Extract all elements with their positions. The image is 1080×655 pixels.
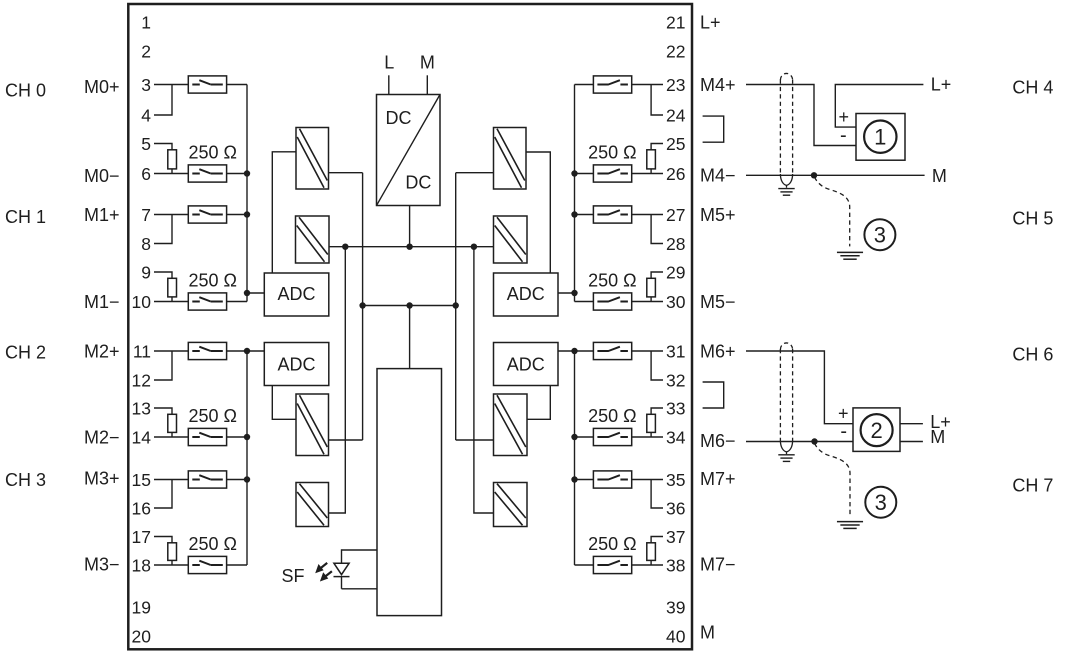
wire M output transducer 2 [900,441,923,443]
junction left upper ADC1 [244,290,250,296]
svg-text:250 Ω: 250 Ω [588,406,637,426]
resistor 250 ohm CH5 [647,278,656,297]
wire resistor CH2 bottom [171,432,173,437]
svg-text:30: 30 [666,292,686,312]
svg-text:3: 3 [141,75,151,95]
svg-text:250 Ω: 250 Ω [588,143,637,163]
wire pin 12 stub [154,351,172,380]
wire switch CH6− input [575,436,594,438]
transducer 2 circle [861,414,893,446]
wire M7− pin 38 [632,564,663,566]
svg-text:CH 3: CH 3 [5,470,46,490]
ground shield CH6 [778,455,794,462]
svg-text:37: 37 [666,527,685,547]
wire dashed to earth CH4 [815,177,850,246]
switch CH1− (pin 10) [188,293,226,310]
ground (3) CH6 [837,522,863,529]
svg-text:M5−: M5− [700,292,736,312]
resistor 250 ohm CH0 [168,150,177,169]
svg-text:21: 21 [666,13,685,33]
junction right upper pin27 [571,211,577,217]
svg-text:CH 5: CH 5 [1012,208,1053,228]
svg-text:CH 0: CH 0 [5,81,46,101]
svg-text:31: 31 [666,342,685,362]
wire M3− pin 18 [154,564,188,566]
junction bus A centre [406,244,412,250]
svg-text:M4−: M4− [700,165,736,185]
wire resistor CH0 bottom [171,169,173,174]
svg-text:M: M [932,166,947,186]
wire switch CH4− input [575,173,594,175]
svg-text:8: 8 [141,234,151,254]
wire M5− pin 30 [632,301,663,303]
power supply U1 DC/DC [377,95,441,206]
wire bus A to T8 [474,247,494,513]
wire M0+ pin 3 [154,84,188,86]
wire pin 37 stub [651,537,663,543]
wire M6+ pin 31 [632,350,663,352]
switch CH4+ (pin 23) [593,76,631,93]
svg-text:M3+: M3+ [84,469,120,489]
shield CH4 clamp [780,174,792,188]
wire pin 13 stub [154,408,172,414]
svg-text:M1+: M1+ [84,205,120,225]
svg-text:35: 35 [666,470,685,490]
junction M4− shield [811,172,817,178]
wire pin 24 stub [651,85,663,116]
svg-text:M: M [930,427,945,447]
module outline [128,4,692,649]
svg-text:250 Ω: 250 Ω [588,534,637,554]
switch CH2+ (pin 11) [188,342,226,359]
svg-text:34: 34 [666,428,686,448]
junction right lower pin35 [571,476,577,482]
svg-text:-: - [840,421,847,443]
svg-text:M6+: M6+ [700,342,736,362]
isolator T8 [494,483,528,527]
wire T7 to ADC4 [527,386,550,420]
junction left lower pin11 [244,348,250,354]
svg-text:3: 3 [874,223,886,248]
svg-text:L+: L+ [700,13,721,33]
isolator T4 [296,483,329,527]
svg-text:2: 2 [870,418,882,443]
wire T5 in [456,172,494,174]
wire L+ to transducer 1 [835,85,923,128]
svg-text:5: 5 [141,134,151,154]
wire pin 33 stub [651,408,663,414]
svg-text:17: 17 [132,527,151,547]
svg-text:ADC: ADC [277,284,315,304]
wire bus A to T4 [329,247,346,513]
svg-text:-: - [840,125,847,147]
junction bus B centre [406,302,412,308]
transducer 1 box [856,114,905,161]
callout circle 3 CH4 [864,219,895,250]
svg-text:M2+: M2+ [84,342,120,362]
svg-text:15: 15 [132,470,151,490]
wire switch CH7+ input [575,479,594,481]
svg-text:CH 2: CH 2 [5,343,46,363]
resistor 250 ohm CH3 [168,543,177,561]
wire switch CH2− output [227,436,247,438]
svg-text:3: 3 [875,490,887,515]
wire resistor CH1 bottom [171,297,173,302]
jumper pins 32-33 [703,382,724,408]
bus B (logic) [363,305,456,307]
bus left mux lower [246,351,248,565]
svg-text:M: M [700,623,715,643]
svg-text:36: 36 [666,499,685,519]
svg-text:19: 19 [132,598,151,618]
LED arrow 1 [315,563,327,573]
wire ADC4 input [558,350,575,352]
svg-text:ADC: ADC [507,355,545,375]
svg-text:M1−: M1− [84,292,120,312]
op-block ADC1 [264,273,329,316]
wire T7 in [456,439,494,441]
junction right upper pin26 [571,170,577,176]
wire ADC3 input [558,292,575,294]
svg-text:CH 6: CH 6 [1012,345,1053,365]
wire pin 9 stub [154,272,172,278]
wire switch CH3+ output [227,479,247,481]
ground (3) CH4 [837,252,863,259]
svg-text:L+: L+ [931,74,952,94]
wire switch CH2+ output [227,350,247,352]
junction left upper pin6 [244,170,250,176]
wire M2− pin 14 [154,436,188,438]
junction right lower pin31 [571,348,577,354]
svg-text:22: 22 [666,42,685,62]
svg-text:2: 2 [141,42,151,62]
svg-text:L: L [384,53,394,73]
wire ADC2 to T3 [272,386,296,420]
wire T5 to ADC3 [526,152,550,273]
resistor 250 ohm CH7 [647,543,656,561]
svg-text:9: 9 [141,263,151,283]
svg-text:33: 33 [666,399,685,419]
wire T1 out [329,172,363,174]
switch CH1+ (pin 7) [188,206,226,223]
wire switch CH7− input [575,564,594,566]
LED SF [334,549,350,589]
svg-text:M7−: M7− [700,555,736,575]
callout circle 3 CH6 [865,487,896,518]
svg-text:1: 1 [874,125,886,150]
wire pin 32 stub [651,351,663,380]
svg-text:M4+: M4+ [700,75,736,95]
wire resistor CH6 bottom [650,432,652,437]
svg-text:CH 1: CH 1 [5,207,46,227]
switch CH2− (pin 14) [188,428,226,445]
switch CH3− (pin 18) [188,556,226,573]
svg-text:10: 10 [132,292,152,312]
svg-text:7: 7 [141,205,151,225]
svg-text:CH 4: CH 4 [1012,77,1053,97]
wire switch CH4+ input [575,84,594,86]
isolator T3 [296,394,329,456]
svg-text:18: 18 [132,556,151,576]
junction left lower pin15 [244,476,250,482]
wire pin 25 stub [651,144,663,150]
wire resistor CH3 bottom [171,560,173,565]
shield CH6 dashed top arc [780,343,792,350]
isolator T1 [296,128,329,190]
svg-text:20: 20 [132,627,152,647]
switch CH4− (pin 26) [593,165,631,182]
switch CH3+ (pin 15) [188,471,226,488]
wire LED loop bottom [342,588,378,590]
op-block ADC3 [494,273,559,316]
wire ADC1 to T1 [272,152,296,273]
wire pin 16 stub [154,480,172,509]
wire switch CH1+ output [227,214,247,216]
svg-text:CH 7: CH 7 [1012,475,1053,495]
svg-text:M0+: M0+ [84,77,120,97]
shield CH6 dashed left [779,349,781,441]
svg-text:29: 29 [666,263,685,283]
switch CH5+ (pin 27) [593,206,631,223]
wire switch CH1− output [227,301,247,303]
junction M6− shield [811,438,817,444]
svg-text:250 Ω: 250 Ω [189,534,238,554]
svg-text:28: 28 [666,234,685,254]
svg-text:25: 25 [666,134,685,154]
svg-text:11: 11 [133,342,151,362]
wire L+ output transducer 2 [900,423,923,425]
resistor 250 ohm CH2 [168,414,177,432]
wire switch CH5+ input [575,214,594,216]
wire pin 8 stub [154,215,172,244]
svg-text:4: 4 [141,106,151,126]
svg-text:DC: DC [386,108,412,128]
svg-text:32: 32 [666,371,685,391]
svg-text:39: 39 [666,598,685,618]
wire M1− pin 10 [154,301,188,303]
transducer 1 circle [864,121,896,153]
wire ADC1 input [247,292,264,294]
wire switch CH5− input [575,301,594,303]
wire resistor CH7 bottom [650,560,652,565]
isolator T5 [494,128,527,190]
svg-text:1: 1 [141,13,151,33]
svg-text:27: 27 [666,205,685,225]
bus right mux upper [574,85,576,302]
svg-text:12: 12 [132,371,151,391]
switch CH0+ (pin 3) [188,76,226,93]
svg-text:6: 6 [141,164,151,184]
op-block ADC2 [264,343,329,386]
junction bus B right [453,302,459,308]
wire U1 to bus A [409,206,411,247]
svg-text:M3−: M3− [84,555,120,575]
svg-text:250 Ω: 250 Ω [189,143,238,163]
wire M4+ pin 23 [632,84,663,86]
wire resistor CH4 bottom [650,169,652,174]
wire M4+ external [746,85,856,146]
junction bus A right [471,244,477,250]
wire pin 5 stub [154,144,172,150]
shield CH4 dashed top arc [780,73,792,80]
wire M2+ pin 11 [154,350,188,352]
wire M6− pin 34 [632,436,663,438]
bus left mux upper [246,85,248,302]
LED arrow 2 [320,571,332,581]
svg-text:DC: DC [405,173,431,193]
svg-text:24: 24 [666,106,686,126]
svg-text:13: 13 [132,399,151,419]
svg-text:14: 14 [132,428,152,448]
wire M7+ pin 35 [632,479,663,481]
wire LED loop top [342,549,378,551]
transducer 2 box [853,408,900,452]
junction right upper ADC3 [571,290,577,296]
wire switch CH0+ output [227,84,247,86]
junction bus A left [342,244,348,250]
ground shield CH4 [778,189,794,196]
wire dashed to earth CH6 [815,443,851,516]
switch CH6+ (pin 31) [593,342,631,359]
svg-text:250 Ω: 250 Ω [189,271,238,291]
wire switch CH3− output [227,564,247,566]
wire L supply stub [388,75,390,94]
jumper pins 24-25 [703,116,724,142]
junction left upper pin7 [244,211,250,217]
svg-text:26: 26 [666,164,685,184]
switch CH7− (pin 38) [593,556,631,573]
wire M4− external [746,174,925,176]
bus A (supply) [329,246,494,248]
svg-text:250 Ω: 250 Ω [189,406,238,426]
controller block [377,369,442,616]
wire T3 out [329,439,363,441]
shield CH4 dashed right [792,80,794,175]
svg-text:40: 40 [666,627,686,647]
shield CH6 clamp [780,441,792,455]
switch CH6− (pin 34) [593,428,631,445]
wire pin 29 stub [651,272,663,278]
svg-text:SF: SF [281,566,304,586]
wire M6− external [746,441,853,443]
wire M3+ pin 15 [154,479,188,481]
svg-text:M7+: M7+ [700,469,736,489]
wire pin 36 stub [651,480,663,509]
svg-text:16: 16 [132,499,151,519]
resistor 250 ohm CH4 [647,150,656,169]
wire vertical right inner [455,173,457,440]
resistor 250 ohm CH6 [647,414,656,432]
switch CH0− (pin 6) [188,165,226,182]
svg-text:38: 38 [666,556,685,576]
wire M6+ external [746,351,853,424]
svg-text:M0−: M0− [84,166,120,186]
junction right lower pin34 [571,434,577,440]
wire bus B to controller [409,306,411,369]
wire M4− pin 26 [632,173,663,175]
svg-text:ADC: ADC [277,355,315,375]
wire M1+ pin 7 [154,214,188,216]
wire pin 17 stub [154,537,172,543]
shield CH6 dashed right [792,349,794,441]
isolator T7 [494,394,528,456]
junction bus B left [359,302,365,308]
wire M0− pin 6 [154,173,188,175]
shield CH4 dashed left [779,80,781,175]
wire switch CH0− output [227,173,247,175]
wire resistor CH5 bottom [650,297,652,302]
svg-text:M6−: M6− [700,431,736,451]
isolator T2 [296,216,330,263]
switch CH7+ (pin 35) [593,471,631,488]
svg-text:ADC: ADC [507,284,545,304]
svg-text:M2−: M2− [84,428,120,448]
svg-text:23: 23 [666,75,685,95]
isolator T6 [494,216,528,263]
op-block ADC4 [494,343,559,386]
svg-text:250 Ω: 250 Ω [588,271,637,291]
switch CH5− (pin 30) [593,293,631,310]
junction left lower pin14 [244,434,250,440]
svg-text:M: M [420,53,435,73]
wire ADC2 input [247,350,264,352]
wire switch CH6+ input [575,350,594,352]
resistor 250 ohm CH1 [168,278,177,297]
svg-text:M5+: M5+ [700,205,736,225]
wire pin 28 stub [651,215,663,244]
wire vertical left inner [362,173,364,440]
wire M5+ pin 27 [632,214,663,216]
bus right mux lower [574,351,576,565]
wire pin 4 stub [154,85,172,116]
wire M supply stub [426,75,428,94]
